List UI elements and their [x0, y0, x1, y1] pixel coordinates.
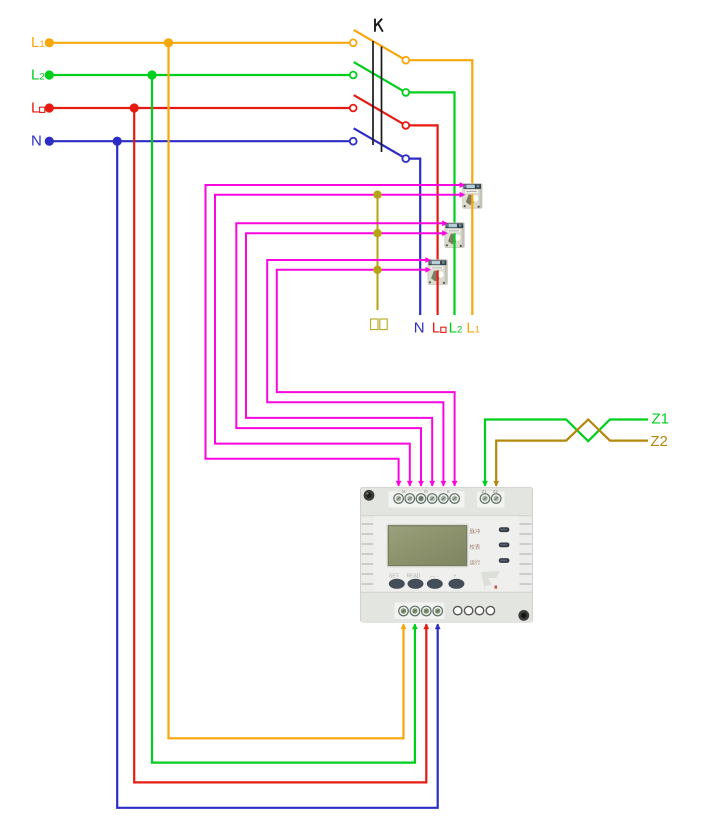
wire L3 switch to bottom terminal — [409, 125, 437, 261]
wire Z1 (with crossover) — [482, 420, 648, 487]
svg-text:N: N — [414, 320, 425, 337]
svg-text:L2: L2 — [449, 320, 463, 337]
meter terminal I2 — [405, 494, 415, 504]
wire L2 switch to bottom terminal — [409, 92, 454, 224]
meter terminal I4 — [427, 494, 437, 504]
wire L1 rail — [47, 42, 350, 44]
meter bottom terminal 2 — [410, 606, 420, 616]
wire N return to meter — [117, 141, 440, 808]
wire L3 return to meter — [134, 108, 429, 782]
svg-text:校表: 校表 — [470, 543, 481, 551]
svg-text:脉冲: 脉冲 — [470, 528, 481, 536]
meter bottom terminal 3 — [422, 606, 432, 616]
junction common S2 T1 — [373, 191, 381, 199]
meter terminal Z2 — [491, 494, 501, 504]
node label L3 — [31, 99, 45, 116]
wire CT secondary T1 S1 — [206, 182, 466, 487]
meter mounting screw bottom-right — [518, 610, 529, 621]
svg-text:+: + — [454, 574, 457, 580]
wire L2 return to meter — [152, 75, 418, 763]
meter mounting screw top-left — [364, 490, 375, 501]
junction common S2 T2 — [373, 229, 381, 237]
wire CT secondary T1 S2 — [215, 192, 465, 487]
wire L2 rail — [47, 74, 350, 76]
junction L3 — [130, 103, 139, 112]
switch K pole 3 (L3) — [350, 95, 409, 129]
switch K pole 1 (L1) — [350, 30, 409, 64]
meter LCD display — [387, 524, 469, 568]
svg-text:L: L — [31, 99, 39, 116]
wire CT secondary T2 S2 — [246, 230, 448, 486]
current transformer T2 — [445, 223, 464, 248]
svg-text:Ic: Ic — [447, 489, 450, 494]
meter terminal Z1 — [480, 494, 490, 504]
wire Z2 (with crossover) — [493, 420, 648, 487]
wire CT secondary T3 S1 — [267, 257, 446, 487]
meter indicator LEDs — [470, 527, 510, 566]
meter buttons — [389, 579, 465, 589]
terminal dot L1 — [45, 38, 54, 47]
terminal dot L2 — [45, 70, 54, 79]
meter terminal I3 — [416, 494, 426, 504]
junction L1 — [164, 38, 173, 47]
meter terminal I5 — [439, 494, 449, 504]
svg-text:SET: SET — [389, 574, 399, 580]
junction L2 — [147, 70, 156, 79]
meter terminal I6 — [450, 494, 460, 504]
wire L2 through CT T2 — [453, 233, 455, 315]
svg-text:Z1: Z1 — [652, 411, 670, 428]
current transformer T3 — [428, 260, 447, 285]
energy meter U1 — [361, 488, 533, 622]
junction common S2 T3 — [373, 266, 381, 274]
node label common (missing glyphs) — [371, 319, 388, 330]
switch K pole 4 (N) — [350, 128, 409, 162]
junction N — [113, 137, 122, 146]
svg-text:L1: L1 — [466, 320, 480, 337]
wire L1 through CT T1 — [471, 194, 473, 315]
wire L3 through CT T3 — [437, 270, 439, 315]
svg-text:L1: L1 — [31, 34, 45, 51]
switch K label — [375, 19, 383, 32]
svg-text:N: N — [31, 133, 42, 150]
terminal dot N — [45, 137, 54, 146]
meter bottom terminal 1 — [399, 606, 409, 616]
wire CT secondary common — [377, 195, 379, 310]
meter bottom terminal 4 — [433, 606, 443, 616]
meter aux holes — [454, 606, 495, 614]
wire CT secondary T2 S1 — [236, 220, 448, 486]
terminal dot L3 — [45, 103, 54, 112]
svg-text:—→: —→ — [430, 574, 440, 580]
meter terminal I1 — [394, 494, 404, 504]
wire L1 switch to bottom terminal — [409, 60, 472, 185]
wire CT secondary T3 S2 — [277, 267, 458, 487]
wire N switch to bottom terminal — [409, 159, 420, 315]
svg-text:READ: READ — [407, 574, 421, 580]
node label L3 (column) — [432, 320, 446, 337]
wire N rail — [47, 140, 350, 142]
svg-text:L: L — [432, 320, 440, 337]
svg-text:L2: L2 — [31, 66, 45, 83]
switch K pole 2 (L2) — [350, 62, 409, 96]
current transformer T1 — [463, 184, 482, 209]
wire L1 return to meter — [169, 43, 407, 739]
wire L3 rail — [47, 107, 350, 109]
svg-text:Z2: Z2 — [650, 433, 668, 450]
switch K linkage — [373, 41, 382, 152]
svg-text:运行: 运行 — [470, 559, 481, 567]
